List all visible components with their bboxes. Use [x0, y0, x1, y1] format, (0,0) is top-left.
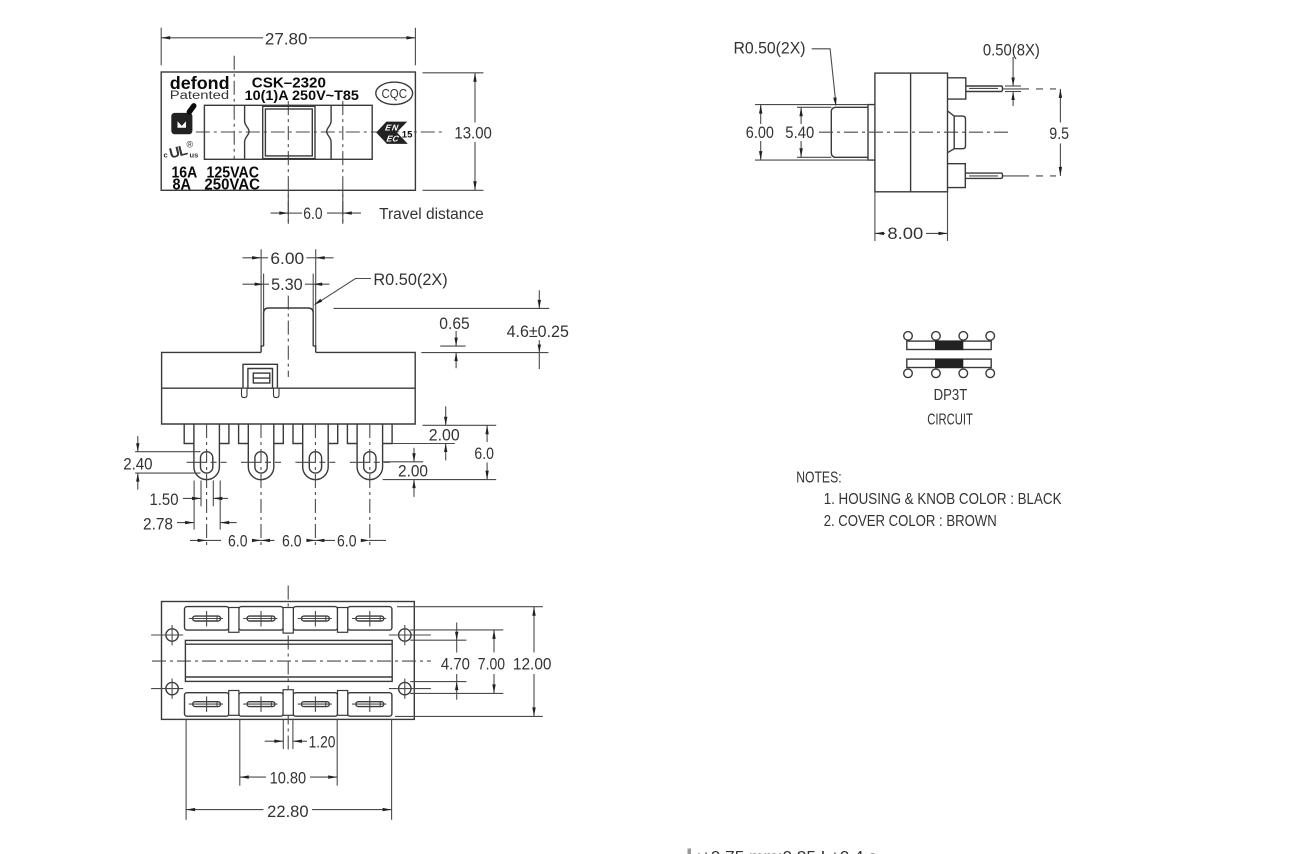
pin B4	[356, 702, 384, 707]
latch window	[253, 373, 269, 383]
svg-text:2.78: 2.78	[143, 516, 173, 534]
dim 0.50 arrows	[1012, 57, 1014, 86]
svg-text:L:±0.75 mm:0.25 L±0.4 s: L:±0.75 mm:0.25 L±0.4 s	[687, 849, 877, 854]
dim 13.00 extension lines	[423, 72, 484, 74]
svg-text:22.80: 22.80	[267, 803, 308, 821]
svg-text:®: ®	[187, 140, 194, 150]
dim 8.00 extension lines	[874, 192, 876, 241]
svg-text:DP3T: DP3T	[934, 387, 968, 404]
track break wavy line left	[245, 105, 249, 159]
knob collar slab	[868, 105, 875, 161]
svg-text:R0.50(2X): R0.50(2X)	[373, 271, 447, 289]
svg-text:6.0: 6.0	[282, 532, 302, 550]
hole centerline pin4	[350, 461, 390, 463]
svg-text:R0.50(2X): R0.50(2X)	[734, 40, 806, 58]
pin 1 hole	[201, 452, 213, 473]
travel dim arrows	[271, 212, 289, 214]
pin 4 hole	[364, 452, 376, 473]
vertical centerline bottom view	[287, 586, 289, 750]
dim 12.00	[533, 607, 535, 653]
divider tab top 1	[229, 608, 239, 633]
svg-text:7.00: 7.00	[478, 656, 505, 674]
pin A4	[356, 616, 384, 621]
pin 3	[303, 424, 329, 480]
collar extension lines	[755, 104, 868, 106]
latch foot left	[242, 388, 248, 397]
svg-text:8A: 8A	[173, 176, 192, 193]
svg-text:Patented: Patented	[170, 90, 229, 102]
front view: body	[162, 352, 416, 424]
dim 10.80	[240, 776, 266, 778]
middle channel inner lines	[185, 643, 392, 645]
collar top extension line	[440, 345, 465, 347]
divider tab bottom 3	[338, 691, 348, 716]
bottom terminal housing step	[948, 164, 966, 188]
R0.50 leader front view	[319, 279, 372, 303]
latch bracket outer	[243, 364, 277, 388]
knob top extension line	[334, 307, 550, 309]
dim 2.00 upper	[445, 406, 447, 425]
svg-text:2. COVER COLOR : BROWN: 2. COVER COLOR : BROWN	[824, 513, 997, 530]
shaft extension lines	[797, 106, 831, 108]
svg-text:CQC: CQC	[382, 86, 408, 101]
hole centerline pin2	[241, 461, 281, 463]
bottom pin	[965, 173, 1002, 178]
pin 2 hole	[255, 452, 267, 473]
mounting hole top-right	[399, 629, 411, 641]
svg-text:8.00: 8.00	[887, 225, 923, 243]
knob shaft sides (5.30)	[263, 274, 265, 312]
knob centerline	[287, 296, 289, 377]
dim 13.00 dimension line	[474, 73, 476, 123]
side centerline	[819, 131, 1008, 133]
svg-text:2.40: 2.40	[123, 455, 152, 473]
svg-text:us: us	[190, 151, 199, 160]
terminal 3 base	[293, 424, 338, 444]
svg-text:6.0: 6.0	[303, 205, 322, 223]
horizontal centerline bottom view	[152, 660, 431, 662]
middle shaft bump	[948, 111, 966, 153]
svg-text:5.30: 5.30	[271, 276, 303, 294]
pin B1	[193, 702, 221, 707]
dim 6.00 side	[760, 105, 762, 124]
svg-text:NOTES:: NOTES:	[796, 470, 841, 487]
svg-text:1. HOUSING & KNOB COLOR : BLAC: 1. HOUSING & KNOB COLOR : BLACK	[824, 491, 1062, 508]
body top extension line	[421, 352, 548, 354]
terminal cavity bottom 3	[293, 693, 337, 717]
pin 2	[248, 424, 273, 480]
divider slot top center	[283, 608, 293, 634]
latch bracket inner	[248, 369, 273, 389]
pin centerline dashes bottom	[1003, 175, 1056, 177]
top terminal housing step	[948, 78, 966, 99]
dim 7.00	[493, 630, 495, 653]
svg-text:1.50: 1.50	[150, 491, 179, 509]
svg-text:6.0: 6.0	[228, 532, 248, 550]
hole centerline pin1	[187, 461, 227, 463]
cover seam line	[162, 387, 416, 389]
defond logo mark	[171, 113, 192, 134]
svg-text:15: 15	[402, 129, 413, 140]
knob outer extension sides (6.00)	[260, 249, 262, 346]
svg-text:5.40: 5.40	[785, 124, 814, 142]
horizontal centerline of switch row	[196, 131, 443, 133]
svg-text:c: c	[164, 151, 168, 160]
knob shaft rounded	[831, 107, 868, 157]
dim 2.40	[137, 436, 139, 452]
pin A1	[193, 616, 221, 621]
vertical centerline position 3	[342, 101, 344, 224]
svg-text:1.20: 1.20	[309, 733, 336, 751]
extensions for 10.80	[239, 719, 241, 785]
dim 27.80 extension line right	[414, 28, 416, 66]
right extension hole center	[383, 461, 424, 463]
slot edge extensions for 1.20	[282, 719, 284, 749]
dim 12.00 extension lines	[397, 606, 543, 608]
terminal cavity top 2	[239, 607, 283, 631]
pin A2	[247, 616, 275, 621]
svg-text:2.00: 2.00	[429, 427, 460, 445]
knob shaft outline	[264, 308, 314, 346]
vertical centerline position 1	[233, 56, 235, 160]
dim 4.70 extension lines	[410, 639, 466, 641]
dim 2.00 lower	[413, 448, 415, 462]
terminal cavity top 3	[293, 607, 337, 631]
svg-text:6.0: 6.0	[337, 532, 357, 550]
right extension body bottom	[423, 424, 497, 426]
pin A3	[302, 616, 330, 621]
terminal 1 base	[184, 424, 229, 444]
terminal 2 base	[239, 424, 284, 444]
pin1 centerline	[206, 424, 208, 548]
pin centerline dashes top	[1003, 88, 1056, 90]
bottom view: cover outline	[162, 602, 415, 720]
pin 4	[357, 424, 383, 480]
side view: main body	[875, 73, 948, 192]
svg-text:0.65: 0.65	[439, 315, 469, 333]
divider tab bottom 1	[229, 691, 239, 716]
label view: housing outline box	[161, 72, 415, 190]
pin3 centerline	[314, 424, 316, 548]
terminal cavity bottom 4	[348, 693, 392, 717]
body cover split line	[910, 73, 912, 192]
terminal cavity bottom 2	[239, 693, 283, 717]
pin4 centerline	[369, 424, 371, 548]
dim 22.80	[186, 809, 263, 811]
travel extension lines	[287, 190, 289, 224]
dim 1.20	[265, 740, 284, 742]
latch foot right	[274, 388, 280, 397]
R0.50 leader side view	[812, 49, 836, 99]
pin 3 hole	[309, 452, 321, 473]
dim 6.0 right	[486, 425, 488, 442]
terminal cavity bottom 1	[185, 693, 229, 717]
knob inner square	[265, 109, 312, 156]
svg-text:9.5: 9.5	[1049, 125, 1069, 143]
track break wavy line right	[327, 105, 331, 159]
pin B3	[302, 702, 330, 707]
CQC oval logo	[376, 82, 413, 104]
pin1 hole edge extensions	[200, 481, 202, 507]
dim 5.30 knob	[243, 283, 264, 285]
knob outer square	[263, 106, 315, 158]
divider tab top 3	[338, 608, 348, 633]
terminal cavity top 4	[348, 607, 392, 631]
right extension base bottom	[392, 443, 455, 445]
pin1 edge extensions	[193, 481, 195, 530]
knob collar	[261, 346, 316, 352]
DP3T circuit: top row terminals	[904, 332, 913, 341]
DP3T pole 2 bar	[907, 359, 991, 367]
dim 2.40 extension lines	[135, 451, 200, 453]
svg-text:Travel distance: Travel distance	[379, 206, 484, 223]
svg-text:0.50(8X): 0.50(8X)	[983, 42, 1040, 60]
svg-text:12.00: 12.00	[513, 656, 552, 674]
mounting hole bottom-left	[166, 682, 178, 694]
vertical centerline position 2 (knob)	[287, 101, 289, 224]
top pin	[966, 86, 1003, 92]
extensions for 22.80	[185, 719, 187, 819]
svg-text:27.80: 27.80	[265, 30, 308, 48]
svg-text:6.0: 6.0	[474, 445, 494, 463]
DP3T pole 2 slider contact	[935, 359, 963, 369]
dim 4.70	[456, 623, 458, 641]
terminal cavity top 1	[185, 607, 229, 631]
ENEC mark black logo	[376, 122, 407, 133]
dim 8.00 line	[875, 232, 885, 234]
pin 1	[194, 424, 220, 480]
pin B2	[247, 702, 275, 707]
dim 27.80 extension line left	[160, 28, 162, 66]
svg-text:250VAC: 250VAC	[204, 176, 260, 193]
mounting hole top-left	[166, 629, 178, 641]
svg-text:4.70: 4.70	[441, 656, 470, 674]
dim 0.50 ticks	[1005, 85, 1021, 87]
pitch dim line 6.0 x3	[190, 539, 221, 541]
svg-text:2.00: 2.00	[398, 462, 428, 480]
svg-text:10.80: 10.80	[270, 770, 307, 788]
DP3T pole 1 slider contact	[935, 341, 963, 351]
svg-text:6.00: 6.00	[270, 250, 304, 268]
dim 27.80 dimension line	[161, 37, 263, 39]
dim 7.00 extension lines	[410, 629, 503, 631]
middle channel outer	[185, 640, 392, 681]
mounting hole bottom-right	[399, 682, 411, 694]
svg-text:10(1)A 250V~T85: 10(1)A 250V~T85	[245, 87, 360, 103]
dim 5.40 side	[800, 107, 802, 124]
dim 6.00 knob	[243, 257, 262, 259]
DP3T pole 1 bar	[907, 341, 991, 349]
DP3T bottom row terminals	[904, 369, 913, 378]
slider track opening	[204, 105, 372, 159]
svg-text:13.00: 13.00	[454, 125, 492, 143]
svg-text:4.6±0.25: 4.6±0.25	[507, 323, 569, 341]
divider slot bottom center	[283, 690, 293, 716]
terminal 4 base	[347, 424, 392, 444]
svg-text:CIRCUIT: CIRCUIT	[927, 412, 973, 429]
svg-text:6.00: 6.00	[746, 124, 774, 142]
dim 9.5	[1059, 89, 1061, 123]
hole centerline pin3	[295, 461, 335, 463]
right extension pin bottom	[383, 479, 497, 481]
pin2 centerline	[260, 424, 262, 548]
